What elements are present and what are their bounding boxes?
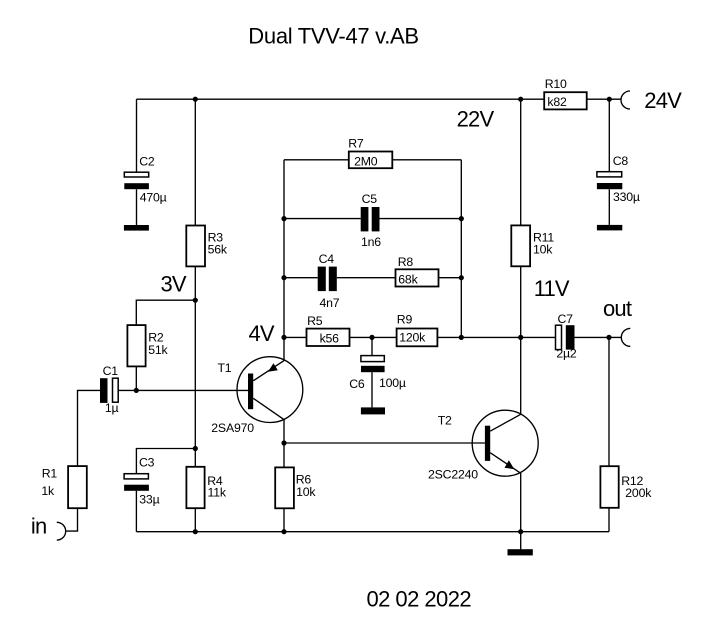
svg-text:200k: 200k [625,486,652,500]
svg-text:4n7: 4n7 [320,296,340,310]
capacitor C2 [124,154,167,230]
svg-text:k82: k82 [547,95,567,109]
wire R2 bottom [135,366,137,390]
wire bottom rail [136,531,609,533]
svg-text:3V: 3V [161,271,187,296]
transistor T1 [211,357,302,435]
resistor R3 [186,226,228,267]
ground [508,549,533,555]
capacitor C4 [318,252,340,310]
resistor R9 [397,313,438,347]
svg-text:470µ: 470µ [140,190,167,204]
svg-text:C3: C3 [139,455,155,469]
svg-text:Dual TVV-47 v.AB: Dual TVV-47 v.AB [248,24,418,49]
svg-text:02 02 2022: 02 02 2022 [367,586,472,611]
wire R1 bottom to in [66,508,78,531]
capacitor C6 [349,356,406,415]
transistor T2 [428,410,538,481]
wire C8 stem top [608,99,610,172]
capacitor C8 [597,154,640,230]
wire R11 bottom to T2 collector [520,266,522,414]
capacitor C5 [361,192,382,249]
svg-text:R9: R9 [397,313,413,327]
svg-text:330µ: 330µ [613,190,640,204]
svg-text:C4: C4 [319,252,335,266]
wire C7 to out [575,336,622,338]
svg-text:2µ2: 2µ2 [556,347,577,361]
svg-text:R10: R10 [545,77,567,91]
wire R6 top [283,443,285,467]
svg-text:R8: R8 [398,255,414,269]
wire C8 stem mid [608,189,610,225]
wire R5 to R9 [350,336,397,338]
svg-text:11V: 11V [534,276,570,301]
capacitor C3 [124,455,159,506]
resistor R2 [127,325,168,366]
svg-text:R7: R7 [348,137,364,151]
wire C6 stem top [371,337,373,355]
resistor R12 [600,466,652,508]
wire C2 stem mid [136,189,138,225]
svg-text:in: in [31,514,47,539]
resistor R8 [396,255,439,287]
resistor R4 [186,467,226,508]
resistor R7 [348,137,392,169]
wire R3 bottom to R4 [194,266,196,466]
wire R6 bottom [283,508,285,531]
wire T2 emitter down [520,473,522,532]
svg-text:R1: R1 [42,466,58,480]
wire R9 to C7 [437,336,555,338]
svg-text:T1: T1 [218,361,232,375]
wire top rail left [137,98,545,100]
svg-text:10k: 10k [296,485,316,499]
wire R12 bottom [608,508,610,532]
svg-text:C5: C5 [362,192,378,206]
svg-text:10k: 10k [533,242,553,256]
wire R3 top [194,99,196,225]
svg-text:C1: C1 [103,364,119,378]
svg-text:C8: C8 [613,154,629,168]
svg-text:k56: k56 [320,332,340,346]
svg-text:22V: 22V [457,107,495,132]
terminal out [603,296,632,346]
wire R7 left [284,159,349,161]
capacitor C7 [556,312,577,361]
wire C3 top arm [136,449,195,474]
svg-text:120k: 120k [399,331,426,345]
svg-text:T2: T2 [438,414,452,428]
wire C6 stem mid [371,372,373,407]
wire T1 collector to T2 base [284,442,485,444]
wire C1 left to R1 [78,390,101,466]
svg-text:C7: C7 [558,312,574,326]
svg-text:C2: C2 [139,154,155,168]
svg-text:4V: 4V [249,321,275,346]
svg-text:100µ: 100µ [379,376,406,390]
svg-text:2SA970: 2SA970 [211,421,254,435]
svg-text:11k: 11k [208,485,227,499]
wire R8 right [439,277,462,279]
wire C4 to R8 [337,277,396,279]
terminal in [31,514,66,540]
wire R11 top [520,99,522,225]
wire C5 left [284,218,361,220]
svg-text:33µ: 33µ [139,492,159,506]
wire C4 left [284,277,318,279]
svg-text:1µ: 1µ [105,401,119,415]
svg-text:51k: 51k [148,343,168,357]
wire C3 bottom [135,491,137,532]
resistor R6 [275,467,316,508]
wire C1 to T1 base [118,389,248,391]
svg-text:1n6: 1n6 [361,235,381,249]
resistor R1 [41,466,86,508]
svg-text:out: out [603,296,632,321]
wire top rail right [587,98,621,100]
svg-text:2SC2240: 2SC2240 [428,468,478,482]
resistor R5 [307,314,350,346]
wire R4 bottom [194,508,196,532]
svg-text:1k: 1k [41,484,55,498]
wire C5 right [380,218,462,220]
terminal 24V [621,88,682,113]
wire T1 collector down [283,420,285,443]
svg-text:68k: 68k [398,273,418,287]
resistor R10 [544,77,587,109]
capacitor C1 [100,364,119,415]
svg-text:R5: R5 [307,314,323,328]
wire left feedback column [283,160,285,361]
svg-text:24V: 24V [644,88,682,113]
svg-text:C6: C6 [349,377,365,391]
wire R7 right [392,159,461,161]
wire ground stem [520,532,522,550]
wire R12 top [608,337,610,466]
resistor R11 [511,225,554,266]
wire right feedback column [460,160,462,338]
wire 3V node to R2 [136,300,195,325]
wire 4V to R5 [284,336,307,338]
svg-text:2M0: 2M0 [354,154,378,168]
wire C2 stem top [136,99,138,172]
svg-text:56k: 56k [208,243,228,257]
